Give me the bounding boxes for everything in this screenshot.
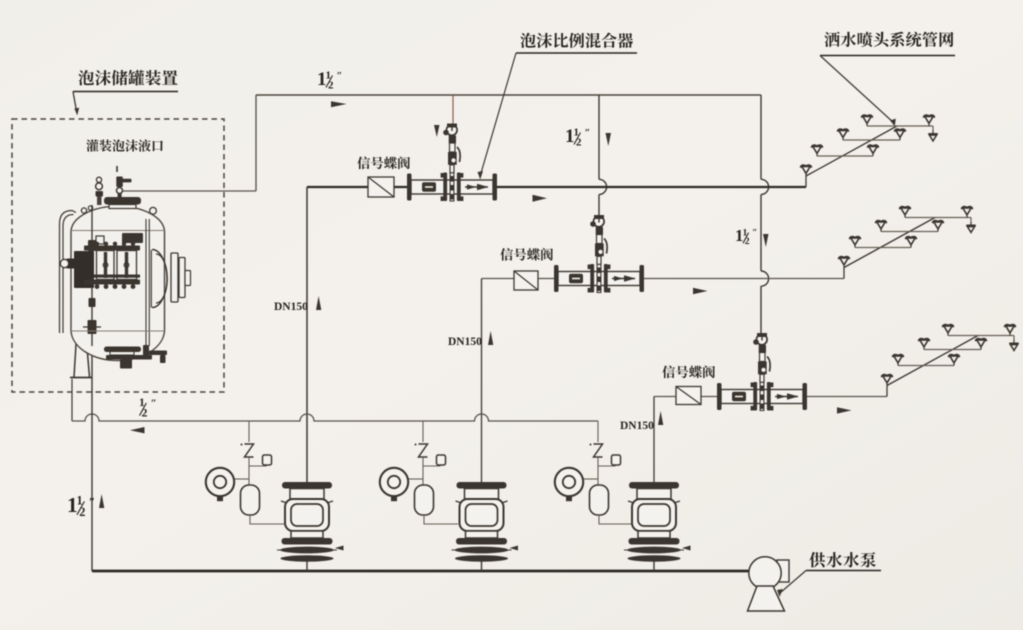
- svg-text:2: 2: [79, 505, 85, 519]
- svg-text:2: 2: [142, 407, 148, 420]
- svg-text:2: 2: [328, 80, 334, 92]
- svg-text:2: 2: [745, 236, 750, 247]
- svg-text:2: 2: [576, 137, 582, 149]
- svg-text:″: ″: [752, 228, 757, 238]
- svg-text:″: ″: [585, 128, 591, 139]
- svg-text:DN150: DN150: [620, 420, 654, 432]
- svg-text:DN150: DN150: [448, 336, 482, 348]
- svg-text:″: ″: [337, 71, 343, 82]
- svg-text:DN150: DN150: [274, 301, 308, 313]
- svg-text:″: ″: [151, 398, 157, 410]
